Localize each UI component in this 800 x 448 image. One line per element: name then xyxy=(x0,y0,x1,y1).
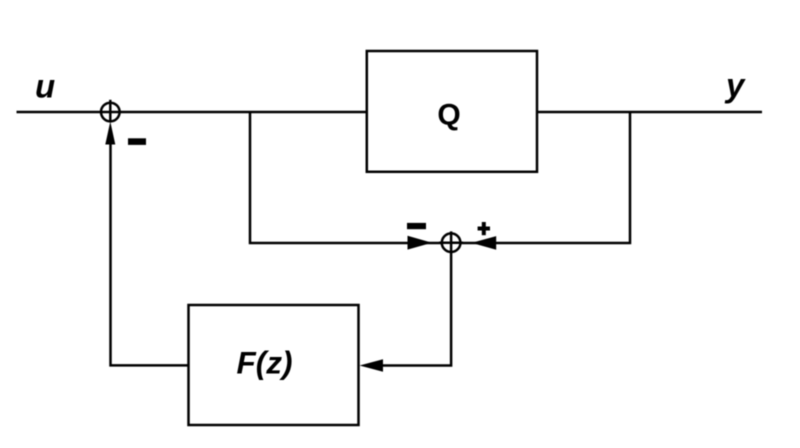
wire: main input line u to Q xyxy=(17,111,367,114)
svg-text:y: y xyxy=(724,67,746,104)
arrowhead into S2 from right (pointing left) xyxy=(472,236,497,250)
summing junction S2 (middle, circle with cross) xyxy=(442,233,461,252)
svg-text:Q: Q xyxy=(437,99,460,132)
svg-text:u: u xyxy=(35,68,55,105)
wire: tap from output down and left to S2 xyxy=(462,112,631,243)
plus sign at S2 xyxy=(478,222,490,235)
arrowhead into S1 (pointing up) xyxy=(105,122,115,145)
minus sign at S2 xyxy=(407,223,426,229)
wire: F(z) output left then up to S1 xyxy=(111,144,189,366)
wire: S2 output down then left into F(z) xyxy=(381,231,451,365)
wire: cross through S2 xyxy=(439,242,463,245)
wire: output line Q to y xyxy=(537,111,762,114)
block F(z) xyxy=(189,305,359,425)
minus sign at S1 xyxy=(128,138,146,145)
svg-text:F(z): F(z) xyxy=(237,344,293,380)
arrowhead into S2 from left (pointing right) xyxy=(408,236,433,250)
block Q xyxy=(367,51,537,172)
arrowhead into F(z) (pointing left) xyxy=(360,359,384,372)
summing junction S1 (left, circle with cross) xyxy=(101,100,120,123)
wire: tap after S1 down and right to S2 xyxy=(250,112,441,243)
